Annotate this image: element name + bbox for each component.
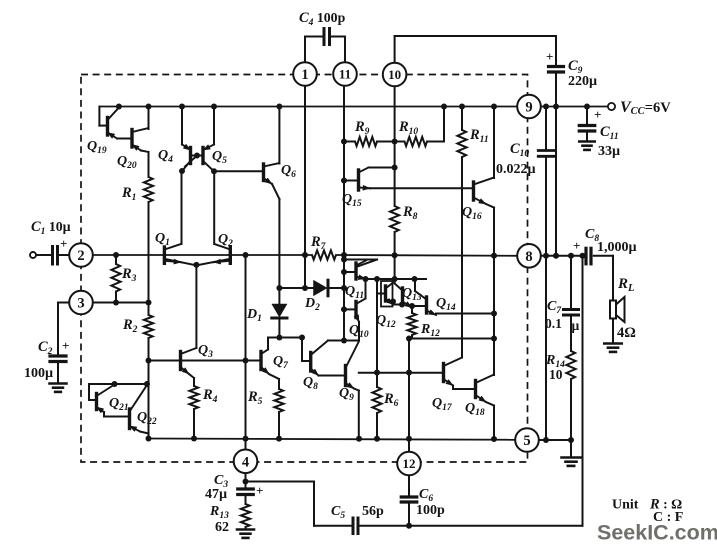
capacitor C3 bbox=[238, 487, 254, 490]
ground pin5 bbox=[562, 456, 581, 459]
wire Q11 snake bbox=[344, 259, 377, 261]
svg-text:Q17: Q17 bbox=[432, 396, 453, 413]
transistor Q17 bbox=[442, 364, 445, 382]
capacitor C5 bbox=[352, 518, 355, 534]
svg-text:D1: D1 bbox=[246, 307, 262, 324]
wire Q8e to Q9b bbox=[319, 375, 346, 377]
svg-text:1: 1 bbox=[301, 67, 308, 83]
wire Q18 col bbox=[493, 339, 495, 376]
wire pin12 col bbox=[408, 339, 410, 453]
svg-text:56p: 56p bbox=[362, 504, 384, 519]
wire y171 to Q6 bbox=[214, 170, 263, 172]
capacitor C4 bbox=[323, 29, 326, 45]
wire pin11 col bbox=[343, 86, 345, 341]
wire R14 down bbox=[570, 379, 572, 440]
wire C10 upper bbox=[545, 107, 547, 150]
wire rail255 left bbox=[93, 254, 312, 256]
transistor Q21 bbox=[95, 394, 98, 410]
transistor Q16 bbox=[472, 182, 475, 200]
pin 11 bbox=[333, 62, 357, 86]
pin 1 bbox=[293, 62, 317, 86]
wire C6 to bottom bbox=[408, 502, 410, 526]
capacitor C1 bbox=[51, 247, 54, 265]
wire Q16 emit bbox=[486, 204, 494, 208]
svg-text:Q21: Q21 bbox=[109, 396, 129, 413]
resistor R7 bbox=[312, 250, 336, 259]
wire x546 lower bbox=[545, 256, 547, 440]
wire x302 to Q8 bbox=[301, 338, 303, 362]
Q12 box bbox=[381, 281, 393, 307]
svg-text:Q11: Q11 bbox=[345, 284, 364, 301]
svg-text:100µ: 100µ bbox=[24, 366, 53, 381]
wire rail pin9 to VCC bbox=[540, 106, 608, 108]
wire C8 to speaker bbox=[594, 255, 613, 257]
resistor R8 bbox=[390, 206, 399, 232]
wire D1 top bbox=[278, 288, 280, 304]
svg-text:+: + bbox=[60, 236, 67, 251]
svg-text:+: + bbox=[256, 483, 263, 498]
transistor Q9 bbox=[344, 366, 347, 386]
wire y288 left bbox=[279, 287, 314, 289]
transistor Q10 bbox=[354, 302, 357, 318]
svg-text:VCC=6V: VCC=6V bbox=[620, 99, 671, 117]
transistor Q7 bbox=[259, 352, 262, 370]
transistor Q4 bbox=[189, 148, 192, 164]
terminal VCC bbox=[608, 103, 615, 110]
wire D1 bot bbox=[278, 318, 280, 338]
wire Q20e to R1 bbox=[141, 151, 149, 153]
wire Q10 emit down bbox=[358, 322, 360, 341]
resistor R3 bbox=[115, 255, 117, 264]
wire C3 tap bbox=[246, 481, 315, 483]
svg-text:9: 9 bbox=[525, 100, 532, 116]
transistor Q19 bbox=[106, 118, 109, 136]
wire C9 to rail bbox=[555, 75, 557, 107]
svg-text:+: + bbox=[594, 107, 601, 122]
wire R9R10 lead bbox=[377, 141, 405, 143]
wire R8 down bbox=[394, 232, 396, 282]
wire y338 bbox=[409, 338, 494, 340]
wire gnd5 stem bbox=[570, 440, 572, 457]
svg-text:Q5: Q5 bbox=[212, 149, 227, 166]
svg-text:R11: R11 bbox=[469, 127, 489, 145]
pin 3 bbox=[69, 291, 93, 315]
capacitor C11 bbox=[579, 124, 595, 127]
wire emitter joint bbox=[164, 259, 230, 266]
svg-text:R6: R6 bbox=[383, 391, 399, 409]
transistor Q22 bbox=[128, 409, 131, 429]
transistor Q1 bbox=[163, 247, 166, 263]
wire pin1 riser bbox=[304, 37, 306, 64]
wire Q15 col bbox=[369, 167, 395, 169]
wire x148 lower bbox=[148, 361, 150, 439]
svg-text:Q16: Q16 bbox=[462, 205, 482, 222]
svg-text:Q9: Q9 bbox=[339, 386, 354, 403]
wire pin10 to C9 bbox=[394, 36, 396, 63]
svg-text:D2: D2 bbox=[304, 296, 320, 313]
resistor R14 bbox=[566, 351, 575, 379]
svg-text:R12: R12 bbox=[420, 322, 440, 339]
svg-text:C11: C11 bbox=[600, 124, 619, 142]
transistor Q3 bbox=[179, 352, 182, 370]
wire Q45 base tie bbox=[191, 155, 204, 157]
transistor Q6 bbox=[262, 164, 265, 181]
svg-text:Q14: Q14 bbox=[436, 296, 456, 313]
wire Q18 emit bbox=[486, 402, 494, 406]
svg-text:R2: R2 bbox=[122, 317, 138, 335]
wire C2 to gnd bbox=[57, 362, 59, 384]
wire Q5 col x214 bbox=[213, 107, 215, 145]
wire feedback riser bbox=[582, 256, 584, 526]
wire speaker gnd bbox=[612, 319, 614, 344]
wire Q14 base bbox=[412, 305, 427, 307]
transistor Q11 bbox=[354, 263, 357, 279]
wire top rail bbox=[99, 106, 517, 108]
resistor R4 bbox=[189, 386, 198, 409]
svg-text:SeekIC.com: SeekIC.com bbox=[597, 521, 717, 545]
svg-text:C10: C10 bbox=[510, 141, 529, 159]
wire R9 lead bbox=[344, 141, 355, 143]
wire y360 Q3 base bbox=[149, 360, 262, 362]
svg-text:C6: C6 bbox=[419, 487, 433, 504]
wire pin8 right bbox=[540, 255, 586, 257]
svg-text:R9: R9 bbox=[354, 119, 370, 137]
resistor R5 bbox=[274, 389, 283, 412]
wire pin1 col bbox=[304, 86, 306, 289]
transistor Q20 bbox=[130, 130, 133, 148]
wire y337 bbox=[268, 337, 302, 339]
wire C11 stem bbox=[586, 107, 588, 125]
wire R4 to rail bbox=[193, 409, 195, 439]
svg-text:Q19: Q19 bbox=[87, 139, 107, 156]
wire x377 col bbox=[376, 279, 378, 373]
resistor R10 bbox=[405, 137, 428, 146]
resistor R13 bbox=[241, 504, 250, 527]
svg-text:C5: C5 bbox=[331, 504, 345, 521]
svg-text:R7: R7 bbox=[310, 234, 327, 252]
wire Q11 base bbox=[344, 271, 356, 273]
wire pin11 riser bbox=[332, 36, 345, 38]
wire Q9 emit bbox=[354, 389, 359, 391]
pin 12 bbox=[397, 452, 421, 476]
svg-text:R1: R1 bbox=[121, 185, 136, 203]
svg-text:8: 8 bbox=[525, 249, 532, 265]
wire y372 bbox=[359, 372, 444, 374]
pin 5 bbox=[515, 428, 539, 452]
svg-text:+: + bbox=[546, 49, 553, 64]
capacitor C7 bbox=[564, 308, 579, 311]
transistor Q13 bbox=[401, 288, 404, 304]
ground speaker bbox=[604, 342, 622, 345]
IC boundary dashed bbox=[81, 75, 528, 463]
wire R10 up bbox=[427, 141, 444, 143]
svg-text:1,000µ: 1,000µ bbox=[597, 240, 637, 255]
wire y288 right bbox=[328, 287, 344, 289]
svg-text:R4: R4 bbox=[202, 387, 218, 405]
svg-text:Q1: Q1 bbox=[155, 231, 170, 248]
transistor Q2 bbox=[229, 247, 232, 263]
wire C7 top bbox=[570, 256, 572, 309]
wire Q12 base bbox=[378, 293, 386, 295]
svg-text:Q15: Q15 bbox=[342, 192, 362, 209]
wire Q17e to Q18b bbox=[452, 386, 454, 390]
svg-text:Q2: Q2 bbox=[218, 232, 233, 249]
wire Q20 col bbox=[148, 107, 150, 130]
wire Q14 emit rail bbox=[436, 313, 494, 315]
svg-text:C4 100p: C4 100p bbox=[299, 10, 346, 28]
capacitor C8 bbox=[584, 248, 587, 263]
capacitor C10 bbox=[538, 149, 554, 152]
wire bottom left bbox=[314, 525, 352, 527]
wire C7 R14 bbox=[570, 315, 572, 351]
transistor Q15 bbox=[357, 170, 360, 190]
transistor Q8 bbox=[309, 353, 312, 372]
svg-text:100p: 100p bbox=[416, 503, 445, 518]
svg-text:Q18: Q18 bbox=[465, 401, 485, 418]
svg-text:C1 10µ: C1 10µ bbox=[31, 219, 71, 237]
svg-text:R5: R5 bbox=[247, 389, 263, 407]
pin 4 bbox=[234, 450, 258, 474]
transistor Q18 bbox=[474, 381, 477, 398]
svg-text:220µ: 220µ bbox=[568, 74, 597, 89]
wire Q3e to R4 bbox=[189, 374, 194, 378]
wire y279 bbox=[366, 278, 427, 280]
capacitor C6 bbox=[401, 495, 417, 498]
ground R13 bbox=[237, 528, 254, 531]
wire Q12 emit bbox=[393, 304, 401, 306]
wire pin4 col bbox=[245, 255, 247, 450]
svg-text:µ: µ bbox=[572, 318, 580, 333]
svg-text:R13: R13 bbox=[209, 504, 229, 521]
svg-text:R8: R8 bbox=[402, 204, 418, 222]
svg-text:2: 2 bbox=[77, 248, 84, 264]
wire bottom right bbox=[361, 525, 583, 527]
svg-text:Q20: Q20 bbox=[117, 154, 137, 171]
svg-text:12: 12 bbox=[403, 456, 416, 471]
wire x196 tail bbox=[195, 265, 197, 348]
wire y337 hat bbox=[328, 340, 359, 342]
junction dots bbox=[116, 104, 122, 110]
svg-text:Q6: Q6 bbox=[281, 163, 296, 180]
svg-text:+: + bbox=[62, 338, 69, 353]
wire C1 to pin2 bbox=[60, 254, 70, 256]
svg-text:+: + bbox=[573, 238, 580, 253]
svg-text:Unit: Unit bbox=[612, 498, 639, 513]
svg-text:Q4: Q4 bbox=[158, 148, 173, 165]
svg-text:33µ: 33µ bbox=[598, 144, 620, 159]
wire C3 to R13 bbox=[245, 495, 247, 505]
transistor Q12 bbox=[384, 286, 387, 301]
wire pin4 to C3 bbox=[245, 473, 247, 488]
wire R2 to y360 bbox=[148, 338, 150, 361]
svg-text:62: 62 bbox=[215, 520, 229, 535]
wire C10 lower bbox=[545, 156, 547, 256]
svg-text:5: 5 bbox=[523, 433, 530, 449]
wire Q14 col bbox=[414, 279, 416, 292]
wire Q7e to R5 bbox=[269, 374, 279, 379]
diode D2 bbox=[314, 280, 328, 296]
svg-text:0.1: 0.1 bbox=[545, 316, 562, 331]
wire Q17 col bbox=[461, 314, 463, 358]
speaker RL bbox=[610, 301, 616, 319]
capacitor C9 bbox=[549, 65, 564, 68]
wire x556 bbox=[555, 107, 557, 256]
wire pin10 col bbox=[394, 86, 396, 207]
wire Q15 base bbox=[344, 180, 359, 182]
terminal input bbox=[30, 252, 36, 258]
svg-text:0.022µ: 0.022µ bbox=[496, 162, 536, 177]
svg-text:RL: RL bbox=[617, 276, 634, 294]
resistor R12 bbox=[411, 308, 413, 314]
wire x182 to Q1 bbox=[181, 171, 183, 244]
wire Q10 base bbox=[344, 308, 356, 310]
wire Q6 emit bbox=[272, 184, 279, 199]
wire R5 to rail bbox=[278, 412, 280, 439]
svg-text:Q3: Q3 bbox=[198, 343, 213, 360]
svg-text:Q8: Q8 bbox=[303, 375, 318, 392]
wire input to C1 bbox=[37, 254, 51, 256]
capacitor C2 bbox=[50, 354, 66, 357]
ground C11 bbox=[579, 140, 595, 143]
svg-text:4Ω: 4Ω bbox=[617, 325, 636, 341]
svg-text:47µ: 47µ bbox=[205, 487, 227, 502]
wire x214 to Q2 bbox=[213, 171, 215, 244]
wire Q19e to Q20b bbox=[117, 138, 131, 140]
svg-text:Q22: Q22 bbox=[137, 410, 157, 427]
wire rail255 right bbox=[336, 254, 518, 257]
wire Q7 col bbox=[267, 338, 269, 350]
resistor R11 bbox=[461, 107, 463, 131]
wire Q15 to Q16 bbox=[370, 187, 474, 189]
pin 10 bbox=[383, 63, 407, 87]
resistor R6 bbox=[376, 373, 378, 388]
wire Q6 col bbox=[278, 107, 280, 164]
wire pin3 rail bbox=[93, 302, 149, 304]
wire Q10 col up bbox=[365, 279, 367, 299]
pin 8 bbox=[517, 244, 541, 268]
wire R1 to R2 bbox=[148, 202, 150, 315]
ground C2 bbox=[50, 382, 67, 385]
svg-text:R3: R3 bbox=[121, 266, 137, 284]
wire pin5 right bbox=[538, 439, 571, 441]
svg-text:3: 3 bbox=[77, 296, 84, 312]
wire Q16 col bbox=[493, 107, 495, 179]
resistor R9 bbox=[355, 137, 377, 146]
transistor Q5 bbox=[201, 148, 204, 164]
svg-text:C2: C2 bbox=[38, 339, 53, 357]
wire R13 to gnd bbox=[245, 527, 247, 530]
svg-text:Q12: Q12 bbox=[376, 313, 396, 330]
wire R11 down bbox=[461, 157, 463, 357]
svg-text:Q7: Q7 bbox=[273, 354, 289, 371]
svg-text:4: 4 bbox=[242, 455, 249, 471]
wire Q21e to Q22b bbox=[103, 412, 105, 417]
wire C11 to gnd bbox=[586, 131, 588, 141]
resistor R1 bbox=[144, 177, 153, 202]
diode D1 bbox=[272, 304, 287, 317]
wire pin3 to C2 bbox=[58, 302, 70, 304]
svg-text:10: 10 bbox=[388, 67, 401, 82]
wire Q22 emit bbox=[140, 432, 149, 434]
wire Q21 loop bbox=[89, 383, 147, 385]
resistor R2 bbox=[144, 315, 153, 338]
svg-text:10: 10 bbox=[549, 367, 563, 382]
pin 2 bbox=[69, 243, 93, 267]
wire Q19 base loop bbox=[98, 107, 100, 126]
wire Q4 col x182 bbox=[181, 107, 183, 145]
svg-text:C7: C7 bbox=[547, 299, 562, 316]
wire pin12 to C6 bbox=[408, 475, 410, 497]
pin 9 bbox=[517, 95, 541, 119]
svg-text:11: 11 bbox=[339, 67, 351, 82]
wire bottom rail bbox=[149, 439, 516, 440]
transistor Q14 bbox=[425, 297, 428, 313]
svg-text:R10: R10 bbox=[398, 119, 418, 137]
